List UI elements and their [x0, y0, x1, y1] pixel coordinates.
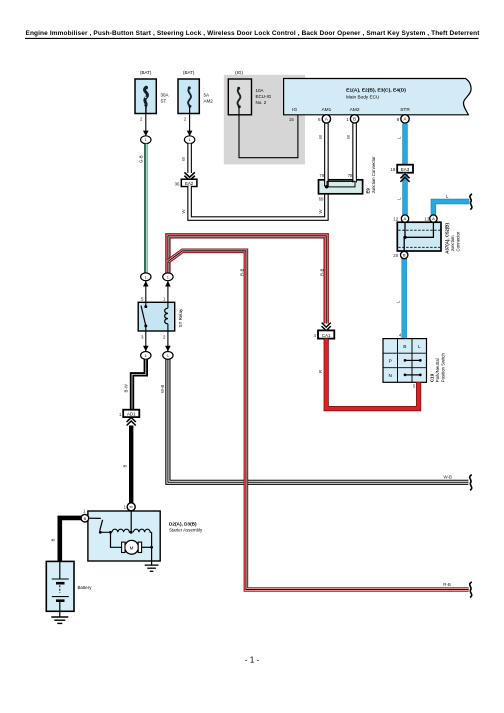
- svg-text:AD1: AD1: [127, 412, 136, 417]
- svg-text:36: 36: [175, 181, 180, 186]
- svg-text:B: B: [403, 253, 406, 258]
- svg-text:1: 1: [189, 138, 191, 142]
- svg-text:L: L: [418, 344, 421, 350]
- chevron into EA3: [400, 174, 409, 179]
- svg-text:69: 69: [319, 196, 324, 201]
- svg-text:No. 2: No. 2: [256, 100, 267, 105]
- svg-text:ST Relay: ST Relay: [178, 308, 183, 328]
- internal: hold-in coil: [133, 529, 151, 532]
- svg-text:B: B: [123, 465, 128, 468]
- svg-text:R-B: R-B: [443, 582, 451, 587]
- wire L: ECU STR to EA3: [396, 124, 405, 166]
- connector circle below pin 2: [167, 331, 169, 352]
- internal: 50 lead: [130, 511, 132, 533]
- ECU-IG No.2 gray block: [224, 75, 305, 165]
- svg-text:1: 1: [145, 138, 147, 142]
- svg-text:B: B: [403, 344, 406, 350]
- relay coil: [167, 302, 169, 308]
- svg-text:15: 15: [289, 117, 294, 122]
- continuation curl: [470, 194, 472, 210]
- svg-text:C19: C19: [429, 373, 434, 382]
- terminal B: [81, 514, 89, 522]
- wire W: fuse AM2 to EA2: [181, 144, 195, 181]
- ground: starter: [145, 561, 159, 571]
- wire W: ECU AM1 to E9 pin 79: [318, 124, 327, 187]
- svg-text:G-B: G-B: [139, 155, 144, 163]
- svg-text:1: 1: [167, 275, 169, 279]
- connector CA1: [314, 330, 335, 338]
- svg-text:1: 1: [167, 354, 169, 358]
- chevron into CA1: [322, 323, 331, 331]
- internal: pull-in coil: [112, 529, 131, 532]
- svg-text:IG: IG: [292, 107, 297, 113]
- wire R: CA1 to park/neutral switch pin 5: [318, 339, 419, 409]
- wire R-B: ST relay pin 1 up and right to CA1: [168, 236, 326, 324]
- svg-text:10A: 10A: [256, 88, 264, 93]
- fuse 10A ECU-IG No.2: [228, 70, 271, 115]
- svg-text:Position Switch: Position Switch: [440, 353, 445, 383]
- svg-text:AM1: AM1: [321, 107, 331, 113]
- ST relay: [138, 273, 183, 359]
- internal: left leg to motor: [111, 532, 122, 547]
- svg-text:Starter Assembly: Starter Assembly: [169, 527, 203, 532]
- svg-text:W-B: W-B: [444, 474, 453, 479]
- battery: [46, 561, 92, 611]
- connector circle above pin 5: [145, 281, 147, 303]
- svg-text:EA2: EA2: [185, 181, 194, 186]
- svg-text:AM2: AM2: [204, 99, 214, 104]
- svg-text:CA1: CA1: [322, 333, 331, 338]
- svg-text:A: A: [404, 117, 407, 122]
- svg-text:B: B: [50, 539, 55, 542]
- relay box: [138, 302, 175, 331]
- svg-text:6: 6: [318, 117, 321, 122]
- A37 pin 12: [393, 215, 408, 222]
- N contact: [405, 374, 420, 376]
- connector EA3: [390, 165, 413, 173]
- svg-text:ST: ST: [161, 99, 167, 104]
- wire W: ECU AM2 to E9 pin 78: [346, 124, 355, 183]
- chevron into AD1: [127, 418, 136, 423]
- wire B: AD1 to starter terminal 50: [123, 426, 132, 504]
- svg-text:B-W: B-W: [123, 383, 128, 392]
- internal: right leg to ground: [151, 532, 153, 561]
- wire W: EA2 to E9 pin 69: [181, 186, 326, 219]
- svg-text:W-B: W-B: [160, 385, 165, 393]
- svg-text:5A: 5A: [204, 93, 210, 98]
- ECU pin 1 (AM2): [346, 115, 359, 123]
- P contact: [405, 359, 420, 361]
- svg-text:AM2: AM2: [350, 107, 360, 113]
- svg-text:Junction: Junction: [450, 235, 455, 252]
- wire G-B: fuse ST to ST relay: [139, 144, 147, 273]
- svg-text:A: A: [432, 216, 435, 221]
- svg-text:20: 20: [393, 253, 398, 258]
- svg-text:- 1 -: - 1 -: [245, 656, 260, 665]
- svg-text:E1(A), E2(B), E3(C), E4(D): E1(A), E2(B), E3(C), E4(D): [346, 87, 406, 93]
- svg-text:1: 1: [145, 354, 147, 358]
- svg-text:B: B: [84, 517, 87, 521]
- svg-text:78: 78: [348, 173, 353, 178]
- svg-text:(BAT): (BAT): [140, 70, 152, 75]
- A37 pin 20: [393, 251, 408, 258]
- starter motor M: [125, 540, 139, 554]
- ECU pin 8 (STR): [397, 115, 410, 123]
- E9 internal bus: [325, 181, 355, 188]
- svg-text:Engine Immobiliser , Push-Butt: Engine Immobiliser , Push-Button Start ,…: [26, 30, 481, 37]
- continuation curl: [470, 582, 472, 598]
- svg-text:B: B: [353, 117, 356, 122]
- wire IG: fuse ECU-IG No.2 to Main Body ECU pin 15: [239, 115, 298, 158]
- svg-text:13: 13: [424, 216, 429, 221]
- relay contact: [145, 302, 147, 306]
- svg-text:M: M: [130, 545, 134, 550]
- wire L: A37 pin 13 branch to right edge: [433, 194, 472, 216]
- ECU pin 6 (AM1): [318, 115, 331, 123]
- svg-text:Junction Connector: Junction Connector: [371, 156, 376, 194]
- park/neutral position switch C19: [383, 339, 445, 389]
- svg-text:N: N: [388, 373, 392, 379]
- wire R-B: branch to bottom right edge: [168, 251, 472, 598]
- A37 pin 13: [424, 215, 437, 222]
- svg-text:D2(A), D3(B): D2(A), D3(B): [169, 521, 197, 526]
- starter assembly D2(A), D3(B): [81, 503, 203, 561]
- continuation curl: [470, 475, 472, 491]
- connector circle above pin 1: [167, 281, 169, 303]
- svg-text:(BAT): (BAT): [183, 70, 195, 75]
- ground: battery: [51, 611, 68, 623]
- svg-text:18: 18: [390, 167, 395, 172]
- svg-text:R-B: R-B: [320, 268, 325, 276]
- svg-text:STR: STR: [400, 107, 410, 113]
- svg-text:79: 79: [319, 173, 324, 178]
- svg-text:A37(A), C52(B): A37(A), C52(B): [445, 223, 450, 254]
- internal: magnetic switch: [89, 517, 101, 519]
- junction connector E9: [319, 156, 376, 194]
- wire L: A37 pin 20 to park/neutral switch pin 4: [396, 259, 405, 339]
- svg-text:(IG): (IG): [235, 70, 243, 75]
- svg-text:Connector: Connector: [456, 231, 461, 251]
- svg-text:P: P: [389, 358, 392, 364]
- svg-text:Park/Neutral: Park/Neutral: [435, 358, 440, 382]
- connector circle below pin 3: [145, 331, 147, 352]
- svg-text:1: 1: [145, 275, 147, 279]
- svg-text:8: 8: [397, 117, 400, 122]
- fuse 5A AM2: [178, 70, 213, 144]
- svg-text:Battery: Battery: [78, 585, 93, 590]
- battery cable: battery to starter B: [50, 518, 82, 562]
- svg-text:50: 50: [130, 505, 134, 509]
- junction connector A37(A), C52(B): [397, 222, 460, 254]
- svg-text:1: 1: [346, 117, 349, 122]
- connector EA2: [175, 179, 197, 186]
- svg-text:ECU-IG: ECU-IG: [256, 94, 272, 99]
- svg-text:R-B: R-B: [239, 268, 244, 276]
- svg-text:R: R: [318, 370, 323, 373]
- fuse 30A ST: [135, 70, 169, 144]
- svg-text:12: 12: [393, 216, 398, 221]
- wire B-W: relay pin 3 to AD1: [123, 360, 146, 410]
- chevron into EA2: [184, 172, 194, 177]
- wire W-B: ST relay pin 2 to right edge: [160, 360, 472, 491]
- svg-text:30A: 30A: [161, 93, 169, 98]
- wire L: EA3 to A37 pin 12: [396, 173, 409, 216]
- connector AD1: [119, 410, 139, 426]
- svg-text:Main Body ECU: Main Body ECU: [346, 94, 380, 99]
- Main Body ECU E1(A),E2(B),E3(C),E4(D): [284, 79, 471, 123]
- svg-text:EA3: EA3: [401, 167, 410, 172]
- terminal 50: [127, 503, 135, 511]
- svg-text:A: A: [404, 216, 407, 221]
- svg-text:A: A: [325, 117, 328, 122]
